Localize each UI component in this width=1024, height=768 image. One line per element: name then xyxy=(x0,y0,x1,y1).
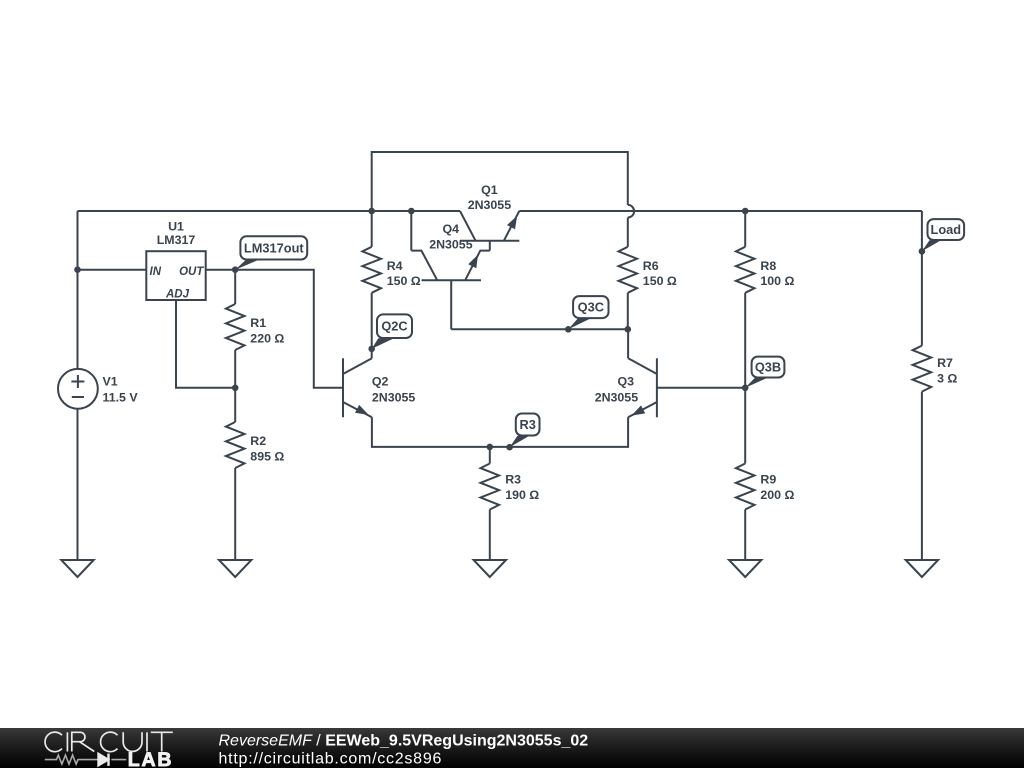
svg-text:R7: R7 xyxy=(937,356,953,370)
wire: R6 bottom lead to Q3C rail xyxy=(627,293,629,330)
svg-text:R8: R8 xyxy=(760,259,776,273)
resistor R8 xyxy=(736,247,755,293)
flag pointer wedge R3 xyxy=(510,436,530,448)
svg-text:220 Ω: 220 Ω xyxy=(250,331,284,345)
node: bus dot at R8 column xyxy=(742,208,749,215)
svg-text:Q4: Q4 xyxy=(443,222,460,236)
svg-text:OUT: OUT xyxy=(179,266,204,278)
svg-text:11.5 V: 11.5 V xyxy=(103,391,139,405)
wire: tee from left column to U1 IN pin xyxy=(78,269,147,271)
wire: hop over bus on R6 column xyxy=(628,205,634,218)
transistor Q1 emitter arrow xyxy=(507,216,517,230)
transistor Q1 body xyxy=(460,211,519,241)
wire: R8 bottom down to Q3B junction xyxy=(744,293,746,388)
resistor R4 xyxy=(362,247,381,293)
wire: U1 ADJ lead down and right to R1/R2 junction xyxy=(176,300,235,388)
node: R3 label anchor dot xyxy=(506,444,513,451)
wire: R6 column hop to R6 top xyxy=(627,218,629,247)
svg-text:2N3055: 2N3055 xyxy=(372,391,416,405)
net flag Q3C box xyxy=(573,296,608,318)
svg-text:2N3055: 2N3055 xyxy=(595,391,639,405)
resistor R3 xyxy=(481,464,500,510)
wire: R3 top lead xyxy=(489,447,491,464)
svg-text:895 Ω: 895 Ω xyxy=(250,449,284,463)
resistor R7 xyxy=(913,346,932,392)
wire: U1 OUT to LM317out node xyxy=(206,269,236,271)
flag pointer wedge Load xyxy=(922,240,941,251)
flag pointer wedge LM317out xyxy=(235,260,259,270)
svg-text:R3: R3 xyxy=(520,417,536,432)
net flag Q3B box xyxy=(752,357,785,378)
flag pointer wedge Q3B xyxy=(745,378,767,388)
wire: V1 - terminal down to ground xyxy=(77,409,79,560)
transistor Q4 emitter arrow xyxy=(468,255,478,269)
wire: Q2 emitter down and across to Q3 emitter (R3 node) xyxy=(372,417,628,447)
svg-text:Q2: Q2 xyxy=(372,375,389,389)
transistor Q3 emitter arrow xyxy=(632,405,646,415)
transistor Q4 body xyxy=(411,251,490,281)
wire: Q3 collector up to Q3C rail xyxy=(627,329,629,358)
svg-text:R2: R2 xyxy=(250,434,266,448)
svg-text:ReverseEMF / EEWeb_9.5VRegUsin: ReverseEMF / EEWeb_9.5VRegUsing2N3055s_0… xyxy=(219,733,589,750)
transistor Q3 body xyxy=(628,358,657,417)
svg-text:2N3055: 2N3055 xyxy=(429,237,473,251)
svg-text:LAB: LAB xyxy=(128,749,173,768)
wire: R8 top lead from bus xyxy=(744,211,746,247)
node: Q3B junction dot xyxy=(742,385,749,392)
svg-text:2N3055: 2N3055 xyxy=(468,198,512,212)
wire: R4 top lead from bus xyxy=(371,211,373,247)
logo: diode triangle and bar xyxy=(99,754,109,766)
wire: R1 bottom to R2 top through ADJ junction xyxy=(234,350,236,422)
resistor R9 xyxy=(736,464,755,510)
net flag Load box xyxy=(928,219,965,240)
resistor R2 xyxy=(226,422,245,468)
node: LM317out junction dot xyxy=(232,266,239,273)
svg-text:R9: R9 xyxy=(760,473,776,487)
wire: Q4 collector stub to bus xyxy=(410,211,412,251)
ground (R7) xyxy=(906,560,938,577)
wire: main top bus right segment (Q1 emitter to R8 / Load) xyxy=(519,210,922,212)
resistor R6 xyxy=(619,247,638,293)
ground (V1) xyxy=(61,560,93,577)
svg-text:Q3C: Q3C xyxy=(578,300,604,315)
svg-text:Q2C: Q2C xyxy=(381,319,407,334)
transistor Q2 body xyxy=(343,358,372,417)
svg-text:Load: Load xyxy=(931,222,962,237)
wire: Q4 emitter stub up to Q1 base xyxy=(489,241,491,251)
wire: Q3B junction down to R9 top xyxy=(744,388,746,464)
svg-text:IN: IN xyxy=(150,266,162,278)
wire: LM317out node right then down to Q2 base xyxy=(235,270,343,388)
node: Load anchor dot xyxy=(919,248,926,255)
ground (R3) xyxy=(474,560,506,577)
node: V1/IN junction dot xyxy=(74,266,81,273)
svg-text:200 Ω: 200 Ω xyxy=(760,488,794,502)
svg-text:U1: U1 xyxy=(168,219,184,233)
svg-text:150 Ω: 150 Ω xyxy=(387,274,421,288)
wire: R9 bottom to ground xyxy=(744,510,746,561)
net flag LM317out box xyxy=(240,236,307,259)
wire: Q4 base down to Q3C rail xyxy=(450,280,452,329)
svg-text:LM317out: LM317out xyxy=(244,241,304,256)
ground (R2) xyxy=(219,560,251,577)
flag pointer wedge Q2C xyxy=(372,338,393,349)
wire: R3 bottom to ground xyxy=(489,510,491,561)
transistor Q2 emitter arrow xyxy=(355,405,369,415)
svg-text:Q1: Q1 xyxy=(481,183,498,197)
wire: R4 bottom to Q2 collector (Q2C node) xyxy=(371,293,373,358)
svg-text:Q3B: Q3B xyxy=(755,360,781,375)
wire: upper loop from bus at R4 column to R6 column xyxy=(372,152,628,211)
footer bar xyxy=(0,728,1024,768)
wire: R7 bottom to ground xyxy=(921,392,923,560)
logo: resistor-diode squiggle xyxy=(45,755,127,764)
node: Q3C/R6 junction dot xyxy=(625,326,632,333)
svg-text:3 Ω: 3 Ω xyxy=(937,371,957,385)
voltage source V1 xyxy=(58,369,98,409)
svg-text:http://circuitlab.com/cc2s896: http://circuitlab.com/cc2s896 xyxy=(219,751,443,768)
svg-text:ADJ: ADJ xyxy=(165,288,190,300)
logo: CIRCUIT monoline letters xyxy=(45,732,173,752)
flag pointer wedge Q3C xyxy=(568,318,591,329)
svg-text:R1: R1 xyxy=(250,316,266,330)
resistor R1 xyxy=(226,304,245,350)
ground (R9) xyxy=(729,560,761,577)
svg-text:LM317: LM317 xyxy=(157,233,196,247)
wire: right column bus corner down through Load tap to R7 xyxy=(921,211,923,346)
node: bus dot at R4 column xyxy=(368,208,375,215)
node: Q3C anchor dot xyxy=(565,326,572,333)
op-amp U1 LM317 box xyxy=(146,251,205,300)
svg-text:Q3: Q3 xyxy=(617,375,634,389)
svg-text:V1: V1 xyxy=(103,375,118,389)
wire: Q3C rail from Q4 base to R6 bottom / Q3 collector xyxy=(451,328,628,330)
svg-text:R3: R3 xyxy=(505,473,521,487)
svg-text:190 Ω: 190 Ω xyxy=(505,488,539,502)
net flag Q2C box xyxy=(377,314,412,338)
svg-text:R4: R4 xyxy=(387,259,403,273)
node: bus dot at Q4 collector xyxy=(408,208,415,215)
wire: main top bus left segment (V1+ / IN / R4 / Q collectors) xyxy=(78,210,461,212)
wire: R1 top lead xyxy=(234,270,236,304)
node: ADJ/R1/R2 junction dot xyxy=(232,385,239,392)
node: Q2C anchor dot xyxy=(368,346,375,353)
net flag R3 box xyxy=(516,414,540,436)
node: R3 junction dot xyxy=(487,444,494,451)
svg-text:R6: R6 xyxy=(643,259,659,273)
svg-text:150 Ω: 150 Ω xyxy=(643,274,677,288)
svg-text:100 Ω: 100 Ω xyxy=(760,274,794,288)
wire: Q3 base to R8/R9 column (Q3B node) xyxy=(657,387,745,389)
wire: left column from bus down to V1 + terminal xyxy=(77,211,79,369)
wire: R2 bottom to ground xyxy=(234,468,236,560)
